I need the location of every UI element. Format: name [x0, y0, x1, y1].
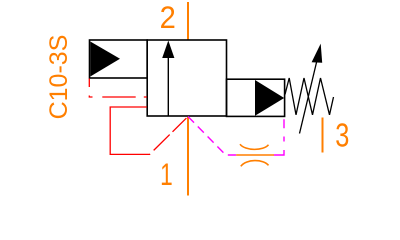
- svg-text:1: 1: [160, 156, 173, 192]
- orifice upper arc: [240, 144, 269, 149]
- svg-text:C10-3S: C10-3S: [45, 35, 73, 120]
- flow arrow in box 1 (head): [162, 41, 174, 59]
- valve envelope box 1: [147, 40, 226, 116]
- magenta pilot diagonal from node 1 to orifice: [188, 117, 236, 156]
- port 1 line: [187, 117, 189, 196]
- red pilot dashed line from solenoid: [89, 79, 147, 98]
- svg-text:2: 2: [160, 0, 176, 35]
- red pilot path left of box and dashed diagonal to node 1: [110, 107, 187, 154]
- orifice lower arc: [241, 161, 269, 167]
- solenoid triangle: [90, 42, 120, 77]
- flow arrow in box 1 (shaft): [167, 56, 169, 116]
- flow triangle in box 2: [255, 80, 284, 116]
- magenta pilot from orifice to box 2 corner: [274, 117, 284, 155]
- valve envelope box 2: [227, 79, 285, 116]
- svg-text:3: 3: [335, 117, 349, 154]
- port 2 line: [187, 2, 189, 40]
- spring: [285, 78, 334, 115]
- adjustment arrow head: [312, 44, 323, 63]
- solenoid box: [90, 40, 148, 78]
- adjustment arrow shaft: [300, 62, 317, 134]
- orifice through-line: [236, 154, 274, 156]
- port 3 line: [322, 118, 324, 153]
